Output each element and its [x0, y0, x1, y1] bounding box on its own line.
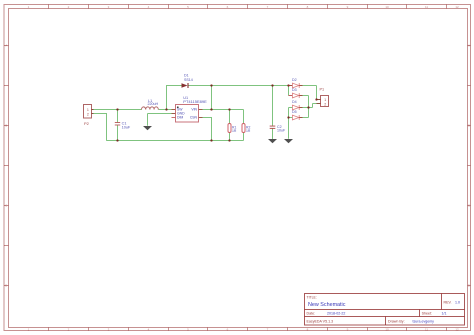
- wire D2 D3 anodes join: [288, 86, 290, 96]
- ground for D4 D5 anodes: [284, 139, 293, 143]
- svg-text:2: 2: [87, 113, 89, 117]
- svg-text:12: 12: [455, 5, 459, 9]
- diode D1 SS14: [182, 74, 193, 89]
- ground for U1 GND pin: [143, 126, 152, 130]
- wire D4 D5 anodes to ground: [289, 108, 293, 139]
- svg-text:A: A: [468, 44, 470, 48]
- resistor R1: [228, 124, 237, 133]
- svg-text:Date:: Date:: [307, 312, 316, 316]
- diode D3: [289, 88, 303, 98]
- wire bottom rail: [107, 133, 244, 141]
- svg-text:D3: D3: [292, 88, 297, 92]
- wire U1 VIN to R1 R2 tops: [199, 110, 244, 124]
- svg-text:D5: D5: [292, 110, 297, 114]
- svg-text:DIM: DIM: [177, 116, 183, 120]
- svg-text:REV.: REV.: [444, 300, 452, 304]
- wire U1 CSN down to bottom rail: [199, 118, 212, 141]
- diode D4: [292, 100, 303, 110]
- svg-text:D1: D1: [184, 74, 189, 78]
- capacitor C2: [270, 125, 286, 132]
- title block: [305, 294, 465, 326]
- svg-text:A: A: [5, 44, 7, 48]
- wire L1 to U1 SW with branch up to D1 anode: [159, 86, 182, 111]
- wire D1 cathode along top rail to D2 anode: [189, 85, 293, 87]
- svg-text:EasyEDA V5.1.3: EasyEDA V5.1.3: [307, 320, 334, 324]
- svg-text:1R: 1R: [246, 129, 251, 133]
- svg-text:B: B: [5, 124, 7, 128]
- svg-text:2: 2: [324, 102, 326, 106]
- svg-text:VIN: VIN: [191, 108, 197, 112]
- diode D2: [289, 78, 303, 88]
- connector P2: [84, 105, 94, 127]
- IC U1 PT4115: [172, 96, 208, 122]
- svg-text:TITLE:: TITLE:: [307, 296, 317, 300]
- diode D5: [292, 110, 303, 120]
- svg-text:CSN: CSN: [190, 116, 198, 120]
- svg-text:1: 1: [87, 108, 89, 112]
- svg-text:tsura.evgeniy: tsura.evgeniy: [413, 320, 435, 324]
- capacitor C1: [115, 122, 131, 130]
- svg-text:11: 11: [425, 327, 428, 331]
- wire node X to P1 pin2: [309, 104, 321, 108]
- wire C2 from top rail to ground: [272, 86, 274, 140]
- svg-text:220uH: 220uH: [148, 102, 159, 106]
- inductor L1: [142, 99, 159, 110]
- svg-text:SS14: SS14: [184, 78, 193, 82]
- svg-text:11: 11: [425, 5, 428, 9]
- resistor R2: [242, 124, 251, 133]
- svg-text:10uF: 10uF: [122, 126, 131, 130]
- wire P2 pin1 to L1: [92, 109, 142, 111]
- svg-text:1R: 1R: [232, 129, 237, 133]
- ground for C2: [268, 139, 277, 143]
- svg-text:1.0: 1.0: [455, 300, 460, 304]
- svg-text:10uF: 10uF: [277, 128, 286, 132]
- wire P2 pin2 down to bottom rail: [92, 114, 107, 141]
- svg-text:Drawn By:: Drawn By:: [388, 320, 405, 324]
- wire D2 cathode to P1 pin1: [299, 86, 320, 100]
- svg-text:10: 10: [385, 5, 389, 9]
- svg-text:2018-02-22: 2018-02-22: [327, 312, 345, 316]
- svg-text:12: 12: [455, 327, 459, 331]
- svg-text:PT4115E89E: PT4115E89E: [183, 99, 207, 104]
- wire U1 GND to ground: [148, 114, 176, 126]
- svg-text:D2: D2: [292, 78, 297, 82]
- svg-text:B: B: [468, 124, 470, 128]
- svg-text:Sheet:: Sheet:: [422, 312, 432, 316]
- svg-text:New Schematic: New Schematic: [308, 302, 346, 308]
- svg-text:P1: P1: [320, 88, 325, 92]
- svg-text:10: 10: [385, 327, 389, 331]
- svg-text:D4: D4: [292, 100, 297, 104]
- connector P1: [317, 88, 329, 107]
- svg-text:1/1: 1/1: [442, 312, 447, 316]
- wire D3 D4 D5 cathodes join: [299, 96, 308, 118]
- wire C1 vertical: [117, 110, 119, 141]
- junction node dots: [116, 84, 317, 141]
- wire top rail branch down to U1 VIN rail: [211, 86, 213, 110]
- svg-text:P2: P2: [84, 121, 90, 126]
